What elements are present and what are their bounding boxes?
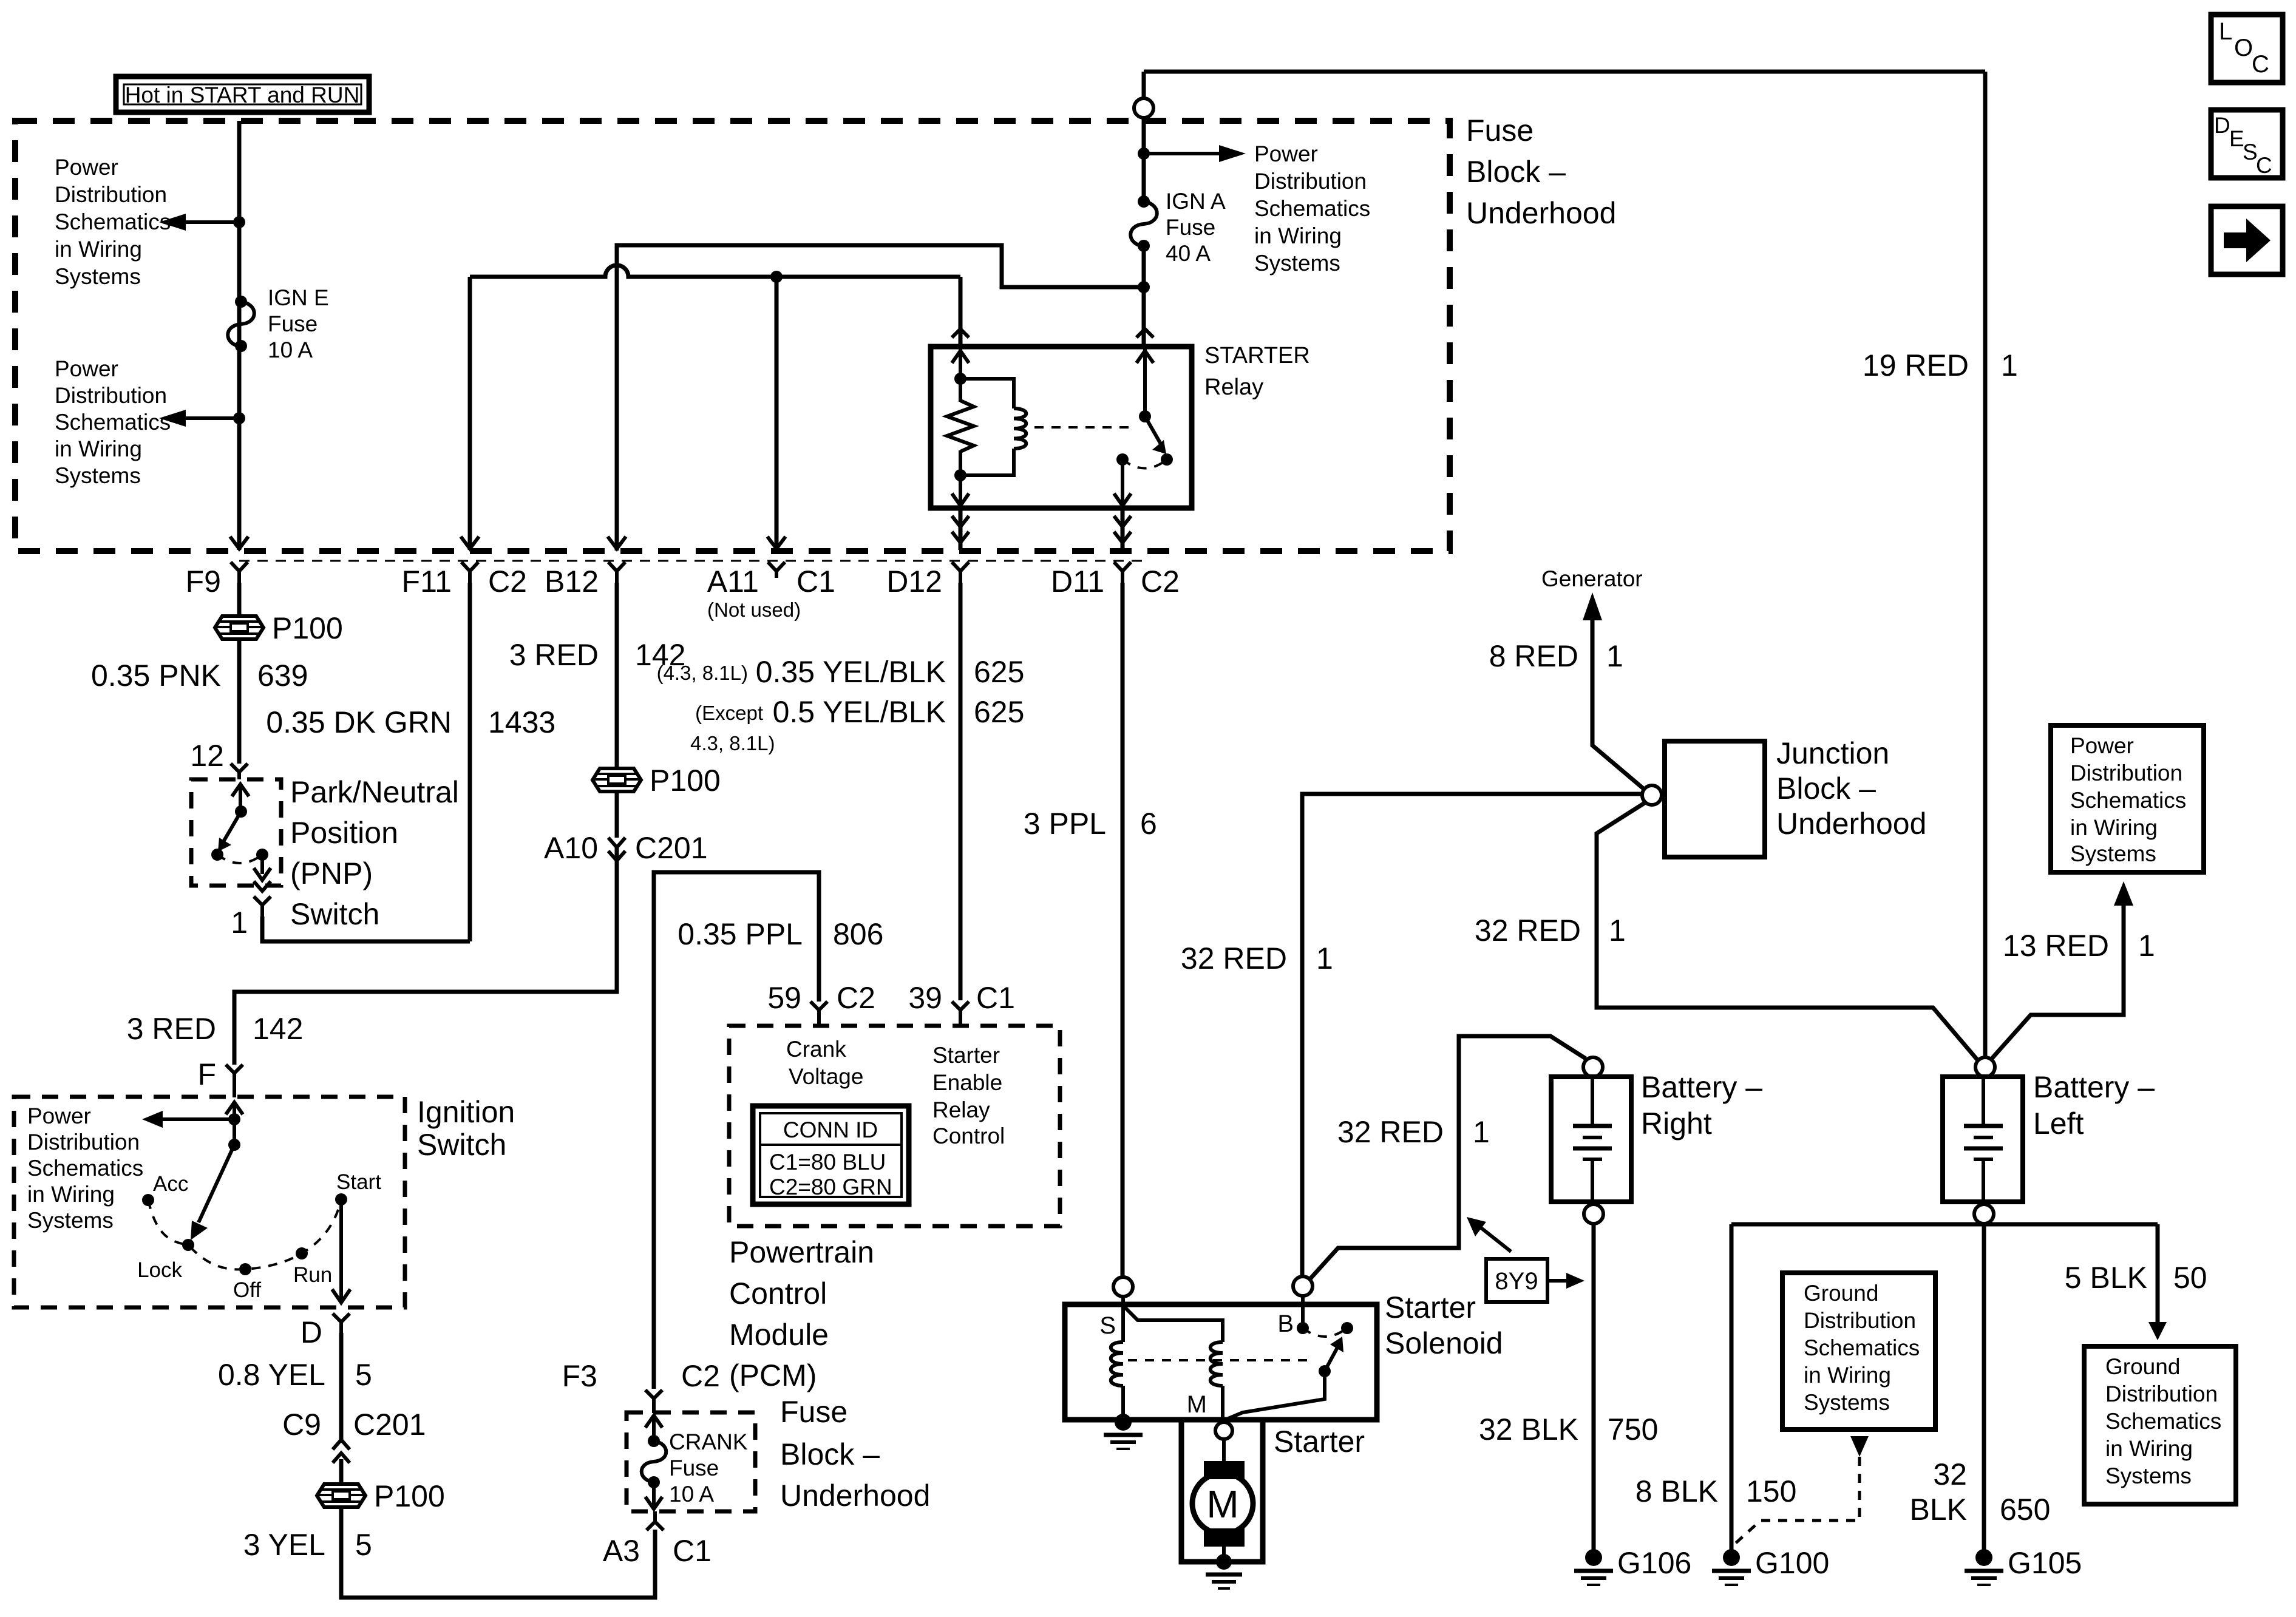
wire: F9 feed from Hot label down through fuse block: [237, 121, 242, 550]
text: Power Distribution Schematics upper: [55, 155, 171, 289]
connector D11/C2: [1051, 562, 1180, 598]
label: 19 RED 1: [1863, 348, 2018, 382]
fuse F9: IGN E Fuse 10 A: [228, 296, 254, 352]
svg-text:0.35 PNK: 0.35 PNK: [91, 659, 221, 693]
svg-text:BLK: BLK: [1909, 1493, 1967, 1527]
svg-text:C2: C2: [681, 1359, 720, 1393]
svg-text:Distribution: Distribution: [2070, 761, 2182, 785]
node: junction dot A11 branch: [770, 271, 783, 283]
wire: top bus from IGN A to 19 RED: [1144, 70, 1985, 74]
svg-text:A11: A11: [707, 564, 759, 598]
wire: PNP output to F11 line: [262, 917, 470, 941]
label: 3 RED 142 (ignition): [127, 1012, 304, 1046]
svg-text:F11: F11: [402, 564, 452, 598]
svg-text:(PNP): (PNP): [290, 856, 373, 890]
box: forward arrow: [2211, 206, 2283, 274]
svg-text:in Wiring: in Wiring: [55, 436, 142, 461]
svg-text:G105: G105: [2008, 1546, 2082, 1580]
svg-text:STARTER: STARTER: [1204, 343, 1310, 368]
svg-text:Relay: Relay: [1204, 375, 1263, 400]
label: 3 YEL 5: [243, 1528, 372, 1562]
svg-text:Relay: Relay: [932, 1097, 990, 1122]
svg-text:Underhood: Underhood: [780, 1479, 930, 1513]
svg-text:10 A: 10 A: [669, 1482, 714, 1507]
svg-text:E: E: [2229, 126, 2244, 151]
svg-text:625: 625: [974, 695, 1024, 729]
svg-text:0.5 YEL/BLK: 0.5 YEL/BLK: [773, 695, 946, 729]
ground G106: [1574, 1546, 1691, 1585]
svg-text:in Wiring: in Wiring: [1804, 1363, 1891, 1388]
svg-text:39: 39: [908, 981, 942, 1015]
wire: P100 to C201: [615, 792, 619, 838]
svg-text:Off: Off: [233, 1278, 261, 1302]
wire: 13 RED battery left to PDS box: [1991, 881, 2133, 1059]
svg-text:S: S: [1099, 1312, 1116, 1339]
svg-text:Run: Run: [293, 1263, 332, 1287]
svg-text:5 BLK: 5 BLK: [2065, 1261, 2147, 1295]
svg-text:Schematics: Schematics: [55, 209, 171, 234]
text: CRANK Fuse 10 A: [669, 1429, 748, 1507]
text: Power Distribution Schematics (top middle): [1254, 141, 1370, 276]
connector: PNP output Y pin 1: [231, 897, 271, 940]
svg-text:Starter: Starter: [1385, 1290, 1476, 1324]
svg-text:Power: Power: [1254, 141, 1318, 166]
svg-text:Systems: Systems: [27, 1208, 114, 1233]
Park/Neutral Position switch dashed box: [191, 779, 281, 886]
connector F11: [402, 562, 527, 598]
wire: exit arrow F9 at fuse block edge: [230, 537, 248, 549]
box: Power Distribution Schematics (right): [2051, 725, 2204, 872]
svg-text:C2: C2: [1141, 564, 1180, 598]
svg-text:P100: P100: [650, 764, 721, 798]
relay coil-side internals: [952, 349, 969, 506]
coil (relay): [960, 379, 1026, 475]
svg-text:8 RED: 8 RED: [1489, 639, 1578, 673]
dashed wire to G100: [1734, 1457, 1860, 1545]
ground G105: [1965, 1546, 2082, 1585]
battery right: [1551, 1057, 1631, 1224]
text: Power Distribution Schematics lower: [55, 356, 171, 488]
wire: C201 to P100: [339, 1459, 344, 1485]
svg-text:Crank: Crank: [786, 1037, 846, 1062]
svg-text:Systems: Systems: [2070, 841, 2156, 866]
svg-text:806: 806: [833, 917, 883, 951]
svg-text:CONN ID: CONN ID: [783, 1117, 878, 1142]
svg-text:Control: Control: [729, 1276, 827, 1310]
svg-text:D11: D11: [1051, 564, 1104, 598]
relay switch internals: [1114, 349, 1173, 506]
svg-text:Voltage: Voltage: [789, 1064, 863, 1089]
svg-text:Ground: Ground: [2105, 1354, 2180, 1379]
svg-text:1: 1: [2001, 348, 2018, 382]
svg-text:32 BLK: 32 BLK: [1479, 1412, 1578, 1446]
wire: battery left negative bus: [1731, 1224, 2158, 1551]
svg-text:Lock: Lock: [137, 1258, 182, 1282]
svg-text:8 BLK: 8 BLK: [1635, 1474, 1718, 1508]
svg-text:Fuse: Fuse: [669, 1456, 719, 1480]
svg-text:32 RED: 32 RED: [1337, 1115, 1444, 1149]
svg-text:Switch: Switch: [417, 1128, 506, 1162]
text: Park/Neutral Position (PNP) Switch: [290, 775, 459, 931]
svg-text:Systems: Systems: [55, 264, 141, 289]
svg-text:C: C: [2252, 51, 2269, 78]
text: Starter Solenoid: [1385, 1290, 1503, 1360]
label: 13 RED 1: [2003, 929, 2155, 963]
svg-text:40 A: 40 A: [1166, 241, 1211, 266]
svg-text:1: 1: [1316, 941, 1333, 975]
svg-text:13 RED: 13 RED: [2003, 929, 2109, 963]
svg-text:C2=80 GRN: C2=80 GRN: [769, 1175, 892, 1199]
svg-text:Battery –: Battery –: [1641, 1070, 1762, 1104]
svg-text:(Except: (Except: [695, 702, 763, 724]
text: Fuse Block - Underhood (bottom): [780, 1395, 930, 1513]
box: LOC: [2211, 15, 2283, 83]
svg-text:1: 1: [1606, 639, 1623, 673]
wire: battery right negative to G106: [1592, 1224, 1596, 1551]
svg-text:F: F: [197, 1057, 216, 1091]
svg-text:Right: Right: [1641, 1107, 1712, 1141]
connector: PNP input Y: [231, 764, 248, 779]
battery left: [1943, 1057, 2023, 1224]
svg-text:Fuse: Fuse: [1466, 114, 1533, 147]
svg-text:L: L: [2219, 18, 2232, 45]
svg-text:C1=80 BLU: C1=80 BLU: [769, 1150, 886, 1175]
svg-text:639: 639: [257, 659, 308, 693]
svg-text:150: 150: [1746, 1474, 1796, 1508]
wire: IGN A drop with bulkhead circle: [1134, 72, 1153, 200]
junction block underhood: [1642, 741, 1765, 857]
svg-text:142: 142: [253, 1012, 303, 1046]
svg-text:Park/Neutral: Park/Neutral: [290, 775, 459, 809]
svg-text:B12: B12: [545, 564, 599, 598]
generator branch: [1541, 566, 1644, 789]
label: 3 PPL 6: [1024, 807, 1157, 841]
svg-text:Fuse: Fuse: [1166, 215, 1215, 240]
svg-text:in Wiring: in Wiring: [27, 1182, 115, 1207]
wire: D12 down to PCM pin 39: [959, 583, 963, 1000]
label: 0.8 YEL 5: [218, 1358, 372, 1392]
svg-text:Hot in START and RUN: Hot in START and RUN: [125, 83, 360, 107]
svg-text:Systems: Systems: [1254, 251, 1340, 276]
svg-text:Switch: Switch: [290, 897, 379, 931]
svg-text:Power: Power: [27, 1103, 91, 1128]
svg-text:Schematics: Schematics: [2070, 788, 2186, 813]
ground bars at solenoid S coil: [1104, 1435, 1143, 1449]
node: junction dot with arrow right to Power Distribution: [1138, 145, 1246, 162]
svg-text:Distribution: Distribution: [1804, 1308, 1916, 1333]
svg-text:Schematics: Schematics: [55, 410, 171, 435]
wire: Start contact down to D: [332, 1199, 350, 1303]
svg-text:in Wiring: in Wiring: [2105, 1436, 2193, 1461]
svg-text:Enable: Enable: [932, 1070, 1002, 1095]
wire: B12 down to P100: [615, 583, 619, 769]
svg-text:(PCM): (PCM): [729, 1358, 817, 1392]
svg-text:1: 1: [2138, 929, 2155, 963]
splice P100 (B12 branch): [593, 764, 721, 798]
svg-text:625: 625: [974, 655, 1024, 689]
svg-text:0.35 PPL: 0.35 PPL: [678, 917, 803, 951]
node: junction dot upper with arrow to Power Distribution: [159, 214, 245, 231]
svg-text:IGN E: IGN E: [268, 285, 329, 310]
svg-text:Starter: Starter: [932, 1043, 1000, 1068]
svg-text:Power: Power: [2070, 733, 2134, 758]
svg-text:Left: Left: [2033, 1107, 2084, 1141]
svg-text:in Wiring: in Wiring: [55, 237, 142, 262]
wire: junction block to battery left (32 RED): [1597, 802, 1978, 1060]
svg-text:P100: P100: [272, 611, 343, 645]
connector A3/C1: [603, 1511, 712, 1568]
crank fuse dashed box: [627, 1412, 755, 1511]
svg-text:12: 12: [190, 739, 224, 773]
wire: junction block feed from solenoid B: [1302, 794, 1642, 1276]
Ignition Switch dashed box: [14, 1097, 405, 1307]
wire: D to C201: [339, 1333, 344, 1440]
connector C9/C201 double chevron: [282, 1408, 426, 1463]
svg-text:Distribution: Distribution: [55, 182, 167, 207]
svg-text:Systems: Systems: [2105, 1463, 2192, 1488]
ground G100: [1712, 1546, 1829, 1585]
svg-text:C1: C1: [976, 981, 1015, 1015]
connector D12: [886, 562, 969, 598]
CONN ID table: [753, 1106, 909, 1204]
svg-text:6: 6: [1140, 807, 1157, 841]
svg-text:50: 50: [2173, 1261, 2207, 1295]
svg-text:Solenoid: Solenoid: [1385, 1326, 1503, 1360]
svg-text:in Wiring: in Wiring: [2070, 815, 2158, 840]
connector F9: [186, 562, 248, 598]
svg-text:4.3, 8.1L): 4.3, 8.1L): [690, 732, 775, 754]
text: Battery - Right: [1641, 1070, 1762, 1141]
label: 3 RED 142 (B12): [509, 638, 686, 672]
connector A10/C201 double chevron: [544, 831, 708, 865]
svg-text:G100: G100: [1755, 1546, 1829, 1580]
svg-text:Acc: Acc: [153, 1172, 188, 1196]
wire: D12 drop to relay: [959, 277, 963, 347]
label: 0.35 PNK 639: [91, 659, 308, 693]
svg-text:32 RED: 32 RED: [1475, 914, 1581, 947]
svg-text:C: C: [2256, 153, 2272, 178]
svg-text:P100: P100: [374, 1479, 445, 1513]
fuse CRANK 10A: [642, 1415, 667, 1509]
svg-text:O: O: [2234, 35, 2253, 61]
label: 32 RED 1 (junction to battery left): [1475, 914, 1626, 947]
svg-text:3 RED: 3 RED: [509, 638, 599, 672]
svg-text:D: D: [301, 1315, 322, 1349]
svg-text:F3: F3: [562, 1359, 597, 1393]
svg-text:8Y9: 8Y9: [1495, 1268, 1538, 1295]
svg-text:19 RED: 19 RED: [1863, 348, 1969, 382]
label: 0.5 YEL/BLK 625: [690, 695, 1024, 754]
svg-text:5: 5: [355, 1528, 372, 1562]
connector B12: [545, 562, 625, 598]
wire: C201 down and left to ignition F: [234, 847, 617, 1065]
svg-text:C201: C201: [353, 1408, 426, 1442]
svg-text:Distribution: Distribution: [2105, 1381, 2218, 1406]
svg-text:1: 1: [1473, 1115, 1490, 1149]
svg-text:M: M: [1187, 1391, 1207, 1418]
svg-text:Distribution: Distribution: [1254, 169, 1367, 194]
svg-text:A10: A10: [544, 831, 598, 865]
svg-text:5: 5: [355, 1358, 372, 1392]
wire: 19 RED vertical: [1983, 72, 1988, 1057]
svg-text:C1: C1: [673, 1534, 712, 1568]
connector A11 (not used): [707, 562, 835, 621]
text: Power Distribution Schematics (ignition): [27, 1103, 143, 1233]
wire: 5 BLK to ground distribution: [2148, 1224, 2167, 1340]
svg-text:750: 750: [1608, 1412, 1658, 1446]
svg-text:1: 1: [231, 906, 248, 940]
splice P100 (F9 branch): [215, 611, 343, 645]
text: IGN E Fuse 10 A: [268, 285, 329, 362]
solenoid switch: [1224, 1296, 1353, 1420]
connector F (ignition): [197, 1057, 243, 1097]
svg-text:Powertrain: Powertrain: [729, 1235, 874, 1269]
svg-text:Junction: Junction: [1776, 736, 1889, 770]
PCM dashed box: [729, 1026, 1060, 1226]
svg-text:Underhood: Underhood: [1466, 196, 1616, 230]
label box: Hot in START and RUN: [116, 76, 369, 112]
svg-text:Schematics: Schematics: [27, 1156, 143, 1181]
svg-text:Ignition: Ignition: [417, 1095, 515, 1129]
svg-text:Module: Module: [729, 1318, 829, 1352]
connector PCM pin 39/C1: [908, 981, 1015, 1026]
svg-text:Schematics: Schematics: [2105, 1409, 2221, 1434]
svg-text:B: B: [1277, 1310, 1294, 1337]
label: 0.35 YEL/BLK 625: [657, 655, 1025, 689]
solenoid hold-in coil: [1111, 1297, 1132, 1431]
splice P100 (ignition branch): [317, 1479, 445, 1513]
svg-text:(Not used): (Not used): [707, 598, 801, 621]
PNP switch internals: [211, 784, 271, 891]
svg-text:Systems: Systems: [55, 463, 141, 488]
wire: branch B12 up-over (B12 to IGN A junction): [617, 245, 1144, 551]
starter motor box: [1181, 1420, 1263, 1562]
svg-text:3 PPL: 3 PPL: [1024, 807, 1106, 841]
wire: F9 to P100: [237, 583, 242, 617]
ignition internals: input arrow and junction: [142, 1102, 243, 1240]
relay STARTER box: [931, 347, 1192, 508]
fuse block underhood large dashed box: [15, 121, 1450, 551]
text: IGN A Fuse 40 A: [1166, 189, 1226, 266]
svg-text:Power: Power: [55, 155, 118, 180]
svg-text:1433: 1433: [488, 705, 555, 739]
svg-text:Distribution: Distribution: [55, 383, 167, 408]
text: Ignition Switch: [417, 1095, 515, 1162]
svg-text:Fuse: Fuse: [780, 1395, 847, 1429]
svg-text:Power: Power: [55, 356, 118, 381]
svg-text:M: M: [1206, 1482, 1238, 1526]
svg-text:S: S: [2243, 140, 2258, 164]
svg-text:Systems: Systems: [1804, 1390, 1890, 1415]
text: STARTER Relay: [1204, 343, 1310, 400]
dashed link coil to switch: [1034, 426, 1134, 429]
svg-text:IGN A: IGN A: [1166, 189, 1226, 214]
wire: branch F11/A11/D12 horizontal with hop over B12: [470, 265, 960, 277]
arrow below ground distribution box: [1850, 1436, 1869, 1457]
svg-text:D12: D12: [886, 564, 942, 598]
label: 32 BLK 650: [1909, 1457, 2050, 1527]
text: Battery - Left: [2033, 1070, 2155, 1141]
label: 32 BLK 750: [1479, 1412, 1658, 1446]
label: 8 RED 1: [1489, 639, 1623, 673]
svg-text:CRANK: CRANK: [669, 1429, 748, 1454]
svg-text:3 YEL: 3 YEL: [243, 1528, 325, 1562]
wire: battery right feed from solenoid B: [1309, 1036, 1586, 1280]
solenoid terminal S: [1099, 1277, 1133, 1339]
text: Fuse Block - Underhood (top right): [1466, 114, 1616, 230]
svg-text:Distribution: Distribution: [27, 1130, 140, 1154]
svg-text:Control: Control: [932, 1124, 1005, 1148]
svg-text:C1: C1: [796, 564, 835, 598]
svg-text:G106: G106: [1617, 1546, 1691, 1580]
text: Starter Enable Relay Control: [932, 1043, 1005, 1148]
svg-text:C2: C2: [488, 564, 527, 598]
svg-text:Starter: Starter: [1274, 1425, 1365, 1459]
svg-text:C9: C9: [282, 1408, 321, 1442]
svg-text:0.35 DK GRN: 0.35 DK GRN: [266, 705, 452, 739]
svg-text:Block –: Block –: [1466, 155, 1566, 189]
svg-text:A3: A3: [603, 1534, 640, 1568]
svg-text:3 RED: 3 RED: [127, 1012, 216, 1046]
wire: exit arrows at fuse block bottom edge: [461, 537, 786, 549]
label: 0.35 DK GRN 1433: [266, 705, 555, 739]
svg-text:1: 1: [1609, 914, 1626, 947]
svg-text:Underhood: Underhood: [1776, 807, 1926, 841]
label 8Y9 with arrows: [1467, 1217, 1584, 1302]
box: DESC: [2211, 110, 2283, 178]
wire: P100 to PNP 12: [237, 639, 242, 764]
text: Crank Voltage: [786, 1037, 863, 1089]
solenoid terminal B: [1277, 1276, 1313, 1337]
svg-text:Generator: Generator: [1541, 566, 1643, 591]
svg-text:in Wiring: in Wiring: [1254, 223, 1342, 248]
svg-text:650: 650: [2000, 1493, 2050, 1527]
ignition switch contacts and arc: [137, 1170, 381, 1302]
ground bars at starter motor: [1206, 1575, 1242, 1588]
svg-text:F9: F9: [186, 564, 221, 598]
svg-text:D: D: [2214, 113, 2230, 138]
solenoid pull-in coil: [1124, 1307, 1223, 1420]
svg-text:32 RED: 32 RED: [1181, 941, 1287, 975]
svg-text:Block –: Block –: [1776, 771, 1876, 805]
starter motor internals: [1192, 1439, 1253, 1570]
label: 5 BLK 50: [2065, 1261, 2207, 1295]
relay pin chevrons above box: [952, 329, 1153, 337]
wire: IGN A fuse output down to relay: [1142, 246, 1146, 347]
label: 32 RED 1 (junction to B): [1181, 941, 1333, 975]
label: 0.35 PPL 806: [678, 917, 883, 951]
svg-text:32: 32: [1933, 1457, 1967, 1491]
wire: F11 drop inside fuse block: [468, 277, 472, 550]
wire: D11 down to solenoid S: [1121, 583, 1125, 1277]
solenoid M terminal: [1187, 1391, 1232, 1439]
starter solenoid box: [1065, 1304, 1377, 1420]
svg-text:Ground: Ground: [1804, 1281, 1878, 1306]
text: Powertrain Control Module (PCM): [729, 1235, 874, 1392]
fuse: IGN A Fuse 40 A: [1130, 195, 1157, 252]
wire: P100 down and right to A3: [341, 1507, 655, 1598]
svg-text:Position: Position: [290, 816, 398, 850]
wire: F11 down to PNP output: [468, 583, 472, 941]
node: junction dot IGN A with branch wire: [1138, 281, 1150, 293]
dashed link solenoid: [1128, 1359, 1315, 1361]
svg-text:Block –: Block –: [780, 1437, 880, 1471]
box: Ground Distribution Schematics (right): [2084, 1346, 2236, 1504]
svg-text:C2: C2: [837, 981, 875, 1015]
svg-text:Battery –: Battery –: [2033, 1070, 2155, 1104]
text: Junction Block - Underhood: [1776, 736, 1926, 841]
svg-text:59: 59: [767, 981, 801, 1015]
